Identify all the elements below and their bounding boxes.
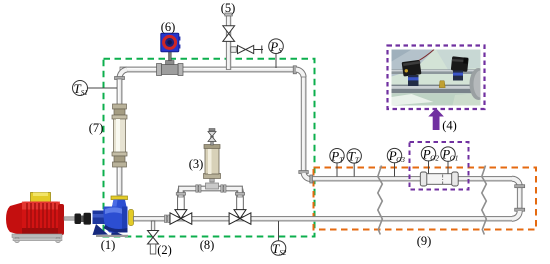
svg-text:(9): (9)	[417, 234, 432, 248]
purple arrow to photo	[428, 108, 444, 130]
elbow top-left	[119, 70, 127, 80]
3way valve B	[229, 191, 251, 224]
sensor PO2	[421, 146, 439, 174]
sensor PO1	[441, 147, 459, 174]
sensor PS circle	[269, 39, 284, 68]
drain valve (2)	[148, 221, 159, 254]
orange dashed box (9 test line boundary)	[314, 168, 537, 230]
pipe break zigzag 1	[378, 166, 383, 235]
svg-text:(6): (6)	[161, 20, 176, 34]
sensor PO3	[387, 148, 405, 176]
svg-text:(8): (8)	[200, 238, 215, 252]
svg-text:S: S	[278, 47, 282, 55]
svg-text:P: P	[330, 148, 339, 163]
svg-text:O2: O2	[430, 154, 439, 162]
photo of sensors on pipe	[392, 50, 488, 106]
flowmeter (6) body on pipe	[157, 52, 184, 76]
sensor PT	[330, 148, 345, 176]
strainer (3) column	[204, 129, 221, 183]
svg-text:(1): (1)	[101, 238, 116, 252]
right end elbows	[512, 179, 525, 219]
pipe break zigzag 2	[482, 166, 487, 235]
elbow top-right	[293, 66, 296, 74]
sensor TS2 circle	[271, 221, 287, 257]
coupling (black)	[75, 213, 92, 225]
motor (red)	[6, 193, 64, 243]
motor shaft	[64, 217, 76, 220]
bypass pipe over valves	[176, 183, 245, 197]
side drain valve on (5) branch	[231, 45, 263, 53]
svg-text:P: P	[269, 39, 278, 54]
photo inset purple dashed box	[388, 46, 485, 110]
pump (1) blue	[93, 196, 134, 237]
valve (5) globe valve symbol	[223, 26, 235, 34]
wire: bottom main pipe	[134, 217, 514, 222]
wire: top horizontal pipe	[120, 67, 296, 72]
svg-text:(2): (2)	[157, 243, 172, 257]
sensor TS1 circle	[73, 81, 118, 97]
svg-text:O3: O3	[396, 156, 405, 164]
svg-text:(7): (7)	[89, 121, 104, 135]
test spool with flanges (between PO2/PO1)	[420, 172, 458, 186]
svg-text:(4): (4)	[442, 119, 457, 133]
svg-text:S1: S1	[81, 89, 88, 97]
elbow to test line	[299, 171, 309, 174]
wire: right vertical pipe	[301, 77, 306, 171]
sensor TT	[347, 149, 361, 177]
flange on pipe after pump	[165, 215, 167, 223]
green dashed box (pump loop boundary)	[104, 59, 315, 237]
filter (7) sight glass on vertical pipe	[112, 104, 127, 167]
svg-text:(3): (3)	[189, 157, 204, 171]
svg-text:S2: S2	[279, 249, 287, 257]
3way valve A	[170, 191, 192, 224]
svg-text:O1: O1	[450, 155, 459, 163]
valve (5) vertical pipe	[226, 15, 231, 70]
flowmeter (6) display head: blue box with red ring	[161, 33, 181, 51]
wire: left vertical pipe	[117, 79, 122, 195]
wire: test section top pipe	[313, 177, 515, 182]
small purple dashed box	[410, 142, 469, 190]
svg-text:(5): (5)	[221, 1, 236, 15]
